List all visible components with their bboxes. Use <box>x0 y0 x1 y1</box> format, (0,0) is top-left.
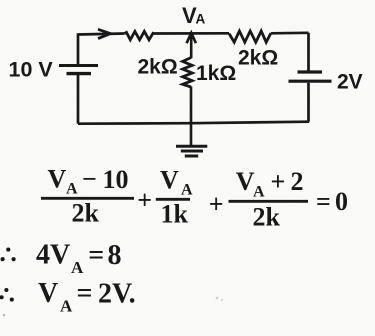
resistor R2 2k (top right zigzag) <box>229 31 271 42</box>
therefore symbol line 3 <box>0 288 14 302</box>
resistor R1 2k (top left zigzag) <box>125 31 154 39</box>
ground bar 2 <box>181 150 203 153</box>
ground stem <box>190 123 193 147</box>
wire bottom horizontal <box>78 122 309 124</box>
line 3: VA = 2V. <box>38 278 136 316</box>
battery B1 plate short <box>67 72 92 75</box>
line 2: 4VA = 8 <box>36 240 122 278</box>
ground bar 1 <box>176 145 207 148</box>
resistor R3 1k (vertical zigzag) <box>183 58 193 88</box>
wire current arrow <box>98 29 111 38</box>
equation term 1: (VA-10)/2k <box>41 165 348 232</box>
battery B2 plate long <box>289 80 332 83</box>
battery B1 plate long <box>59 64 98 67</box>
node VA arrow <box>187 33 196 43</box>
therefore symbol line 2 <box>1 248 16 262</box>
wire left vertical <box>77 33 80 124</box>
ground bar 3 <box>185 155 198 158</box>
smudge dots <box>216 297 219 300</box>
wire top horizontal <box>78 33 309 35</box>
wire from R3 to bottom <box>190 87 193 123</box>
battery B2 plate short <box>298 70 323 73</box>
wire right vertical <box>307 33 310 122</box>
scan noise overlay <box>0 0 1 1</box>
